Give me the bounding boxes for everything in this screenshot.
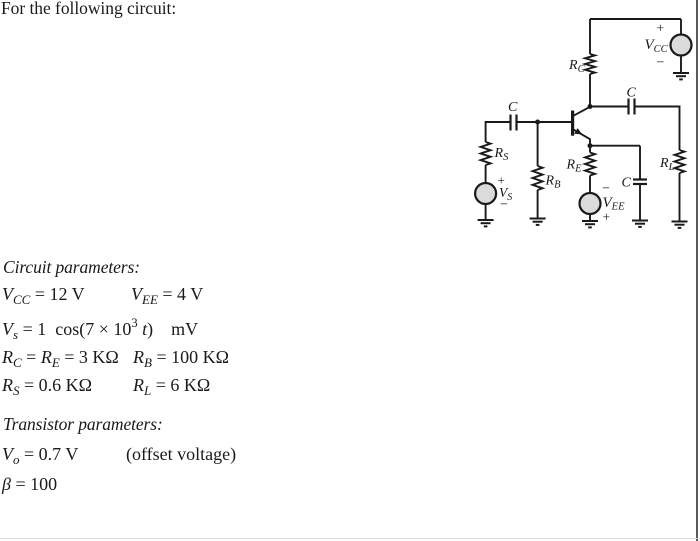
resistor RL: [675, 150, 685, 173]
wire bypass C to ground: [639, 184, 641, 221]
resistor RC: [585, 54, 595, 74]
svg-text:RS: RS: [494, 146, 510, 163]
wire VEE to ground: [589, 214, 591, 221]
wire C to base node: [517, 121, 538, 123]
Transistor parameters heading: [3, 414, 163, 435]
wire top rail: [590, 18, 681, 20]
bottom page border: [0, 538, 700, 539]
wire Vcc drop: [680, 19, 682, 35]
wire Vcc to ground: [680, 56, 682, 74]
wire Rc bottom to collector: [589, 74, 591, 107]
svg-text:RC: RC: [568, 58, 586, 75]
svg-text:RB: RB: [545, 174, 562, 191]
ground (VEE): [582, 221, 598, 227]
resistor RB: [533, 166, 543, 190]
label C (bypass): [622, 176, 632, 191]
source VEE: [580, 193, 601, 214]
label + (Vs): [498, 173, 505, 188]
wire Rs top corner: [486, 122, 511, 142]
node base junction: [535, 120, 540, 125]
transistor Q1: [573, 107, 590, 146]
wire base: [538, 121, 571, 123]
label - (Vcc): [657, 56, 665, 71]
ground (Vcc): [673, 73, 689, 79]
wire Rc top: [589, 19, 591, 54]
label + (Vcc): [657, 21, 665, 36]
label RC: [568, 58, 586, 75]
svg-text:+: +: [603, 210, 611, 225]
label RL: [659, 156, 675, 173]
label VEE: [603, 195, 626, 213]
resistor RE: [585, 153, 595, 176]
capacitor C (input coupling): [511, 115, 517, 131]
source VCC: [671, 35, 692, 56]
wire Rs to Vs: [485, 165, 487, 183]
node emitter junction: [588, 143, 593, 148]
ground (RL): [672, 222, 688, 228]
wire RE to VEE: [589, 176, 591, 194]
eq line 1: [2, 284, 85, 305]
wire collector to C: [590, 106, 629, 108]
capacitor C (bypass): [633, 180, 647, 185]
heading text: [1, 0, 176, 19]
svg-text:C: C: [508, 100, 518, 115]
label Vs: [499, 185, 512, 203]
eq line 3: [2, 347, 119, 368]
wire RB to ground: [537, 190, 539, 219]
ground (Vs): [478, 220, 494, 226]
label C (input): [508, 100, 518, 115]
svg-text:VCC: VCC: [645, 37, 669, 55]
label Vcc: [645, 37, 669, 55]
ground (RB): [530, 219, 546, 225]
label RE: [566, 158, 583, 175]
capacitor C (output coupling): [629, 99, 635, 115]
resistor RS: [481, 142, 491, 165]
wire bypass C drop: [639, 146, 641, 180]
svg-text:C: C: [627, 86, 637, 101]
wire emitter to bypass C: [590, 145, 640, 147]
svg-text:RL: RL: [659, 156, 675, 173]
eq line 2: [2, 319, 198, 340]
ground (bypass C): [632, 221, 648, 227]
label RS: [494, 146, 510, 163]
wire RB top: [537, 122, 539, 166]
label + (VEE): [603, 210, 611, 225]
label C (output): [627, 86, 637, 101]
wire RL to ground: [679, 173, 681, 222]
svg-text:+: +: [657, 21, 665, 36]
label RB: [545, 174, 562, 191]
right page border: [696, 0, 698, 541]
svg-text:RE: RE: [566, 158, 583, 175]
wire Vs to ground: [485, 204, 487, 220]
svg-text:C: C: [622, 176, 632, 191]
label - (Vs): [500, 198, 508, 213]
source VS: [475, 183, 496, 204]
wire C to RL corner: [635, 107, 680, 151]
svg-text:−: −: [657, 56, 665, 71]
svg-text:−: −: [500, 198, 508, 213]
Circuit parameters heading: [3, 257, 140, 278]
wire RE top: [589, 146, 591, 153]
eq line 4: [2, 375, 92, 396]
label - (VEE): [602, 182, 610, 197]
node collector junction: [588, 104, 593, 109]
